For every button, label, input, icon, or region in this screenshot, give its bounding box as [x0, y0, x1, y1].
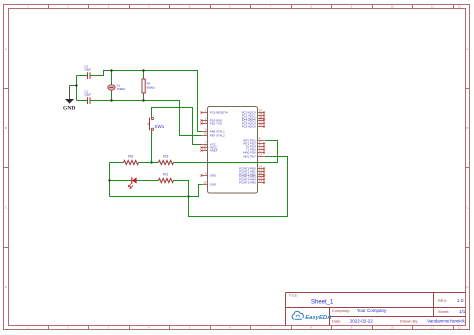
svg-text:Drawn By:: Drawn By:	[400, 318, 418, 323]
svg-text:10: 10	[390, 5, 394, 9]
svg-text:TITLE:: TITLE:	[289, 293, 298, 297]
wire LED to R1	[137, 180, 159, 182]
node SW1-R2-R3	[150, 161, 152, 163]
resistor R1	[159, 172, 174, 183]
wire SW1 to VCC pin	[152, 108, 202, 145]
wire R2 left	[110, 162, 124, 164]
capacitor C1	[88, 97, 91, 104]
pin 16 PCINT2 PB2	[239, 171, 265, 177]
svg-text:20pF: 20pF	[84, 93, 91, 97]
pin 8 GND	[201, 172, 217, 178]
svg-text:C: C	[466, 206, 468, 210]
svg-text:16MHz: 16MHz	[117, 87, 126, 91]
pin 7 VCC	[202, 141, 216, 147]
node crystal top	[110, 69, 112, 71]
svg-text:C: C	[5, 206, 7, 210]
LED D1	[128, 177, 137, 189]
pin 26 PC3 ADC3	[242, 117, 265, 123]
node R4 top	[142, 69, 144, 71]
pin 18 PCINT4 PB4	[239, 176, 265, 182]
svg-text:PD1 TXD: PD1 TXD	[210, 122, 222, 126]
svg-text:R2: R2	[128, 154, 134, 159]
wire XTAL1 net	[91, 71, 202, 132]
wire C1-C2 left vertical	[76, 76, 78, 101]
svg-text:SW1: SW1	[154, 124, 164, 129]
node LED row	[108, 179, 110, 181]
pin 6 T0 PD4	[246, 143, 265, 149]
resistor R2	[124, 154, 139, 165]
node bottom junction	[187, 195, 189, 197]
pin 22 GND	[202, 181, 217, 187]
pin 19 PCINT5 PB5	[239, 179, 265, 185]
svg-text:GND: GND	[210, 183, 216, 187]
svg-text:1/1: 1/1	[459, 309, 466, 314]
switch SW1	[148, 117, 154, 130]
svg-text:Company:: Company:	[332, 308, 350, 313]
pin 2 PD0 RXD	[201, 117, 223, 123]
wire LED left	[110, 180, 132, 182]
crystal X1	[108, 84, 126, 92]
pin 23 PC0 ADC0	[242, 109, 265, 115]
pin 20 AVCC	[201, 144, 218, 150]
pin 24 PC1 ADC1	[242, 112, 265, 118]
pin 14 PCINT0 PB0	[239, 165, 265, 171]
pin 4 INT0 PD2	[243, 137, 264, 143]
svg-text:20pF: 20pF	[84, 68, 91, 72]
svg-text:PB7 XTAL2: PB7 XTAL2	[210, 134, 225, 138]
wire to C1 left	[77, 100, 88, 102]
svg-text:1.0: 1.0	[457, 298, 464, 303]
wire left vertical	[109, 163, 111, 197]
pin 5 INT1 PD3	[243, 140, 265, 146]
resistor R4	[142, 79, 155, 93]
pin 12 AIN0 PD6	[243, 149, 265, 155]
resistor R3	[159, 154, 174, 165]
pin 11 T1 PD5	[246, 146, 265, 152]
svg-text:A: A	[5, 47, 7, 51]
svg-text:10: 10	[390, 326, 394, 330]
svg-text:REV:: REV:	[438, 298, 447, 303]
pin 13 AIN1 PD7	[243, 153, 264, 159]
svg-text:12: 12	[458, 5, 462, 9]
svg-text:11: 11	[431, 326, 434, 330]
svg-text:D: D	[466, 285, 468, 289]
svg-text:PCINT5 PB5: PCINT5 PB5	[239, 181, 256, 185]
wire GND stub	[70, 85, 77, 87]
svg-text:R3: R3	[163, 154, 169, 159]
wire to C2 left	[77, 75, 88, 77]
ground	[63, 86, 75, 112]
node crystal bottom	[110, 99, 112, 101]
svg-text:GND: GND	[210, 174, 216, 178]
pin 1 PC6 RESET#	[201, 109, 228, 115]
svg-text:680kΩ: 680kΩ	[147, 85, 155, 89]
pin 25 PC2 ADC2	[242, 115, 265, 121]
svg-text:R1: R1	[163, 172, 169, 177]
svg-text:Your Company: Your Company	[357, 308, 387, 313]
svg-text:11: 11	[431, 5, 434, 9]
svg-text:AREF: AREF	[210, 149, 218, 153]
svg-text:B: B	[466, 126, 468, 130]
svg-text:D: D	[5, 285, 7, 289]
wire R1 to AIN1 PD7	[174, 157, 288, 217]
svg-text:GND: GND	[63, 105, 75, 111]
svg-text:A: A	[466, 47, 468, 51]
wire XTAL2 net	[91, 101, 202, 136]
svg-text:Sheet:: Sheet:	[438, 309, 450, 314]
pin 28 PC5 ADC5	[242, 123, 265, 129]
svg-text:PC6 RESET#: PC6 RESET#	[210, 111, 228, 115]
wire R2-R3 segment	[139, 162, 159, 164]
svg-text:EasyEDA: EasyEDA	[305, 315, 331, 321]
svg-text:PC5 ADC5: PC5 ADC5	[242, 125, 256, 129]
pin 27 PC4 ADC4	[242, 120, 265, 126]
svg-text:12: 12	[458, 326, 462, 330]
pin 9 PB6 XTAL1	[202, 128, 226, 134]
svg-text:2022-02-22: 2022-02-22	[350, 318, 374, 323]
wire R4 branch	[143, 71, 145, 101]
svg-text:Date:: Date:	[332, 318, 342, 323]
capacitor C2	[88, 72, 91, 79]
node R4 bottom	[142, 99, 144, 101]
wire R3 to INT0 PD2	[174, 141, 278, 163]
wire SW1 bottom	[151, 131, 153, 163]
pin 21 AREF	[201, 147, 218, 153]
wire crystal branch	[111, 71, 113, 101]
pin 17 PCINT3 PB3	[239, 173, 265, 179]
svg-text:VandammeYannick: VandammeYannick	[427, 318, 465, 323]
pin 15 PCINT1 PB1	[239, 168, 265, 174]
IC U1 ATmega8 MCU body	[208, 107, 258, 194]
svg-text:AIN1 PD7: AIN1 PD7	[243, 155, 256, 159]
svg-text:B: B	[5, 126, 7, 130]
node GND junction	[75, 84, 77, 86]
pin 10 PB7 XTAL2	[202, 132, 226, 138]
wire bottom to GND pin 22	[110, 185, 202, 197]
pin 3 PD1 TXD	[201, 120, 222, 126]
svg-text:Sheet_1: Sheet_1	[311, 300, 334, 306]
